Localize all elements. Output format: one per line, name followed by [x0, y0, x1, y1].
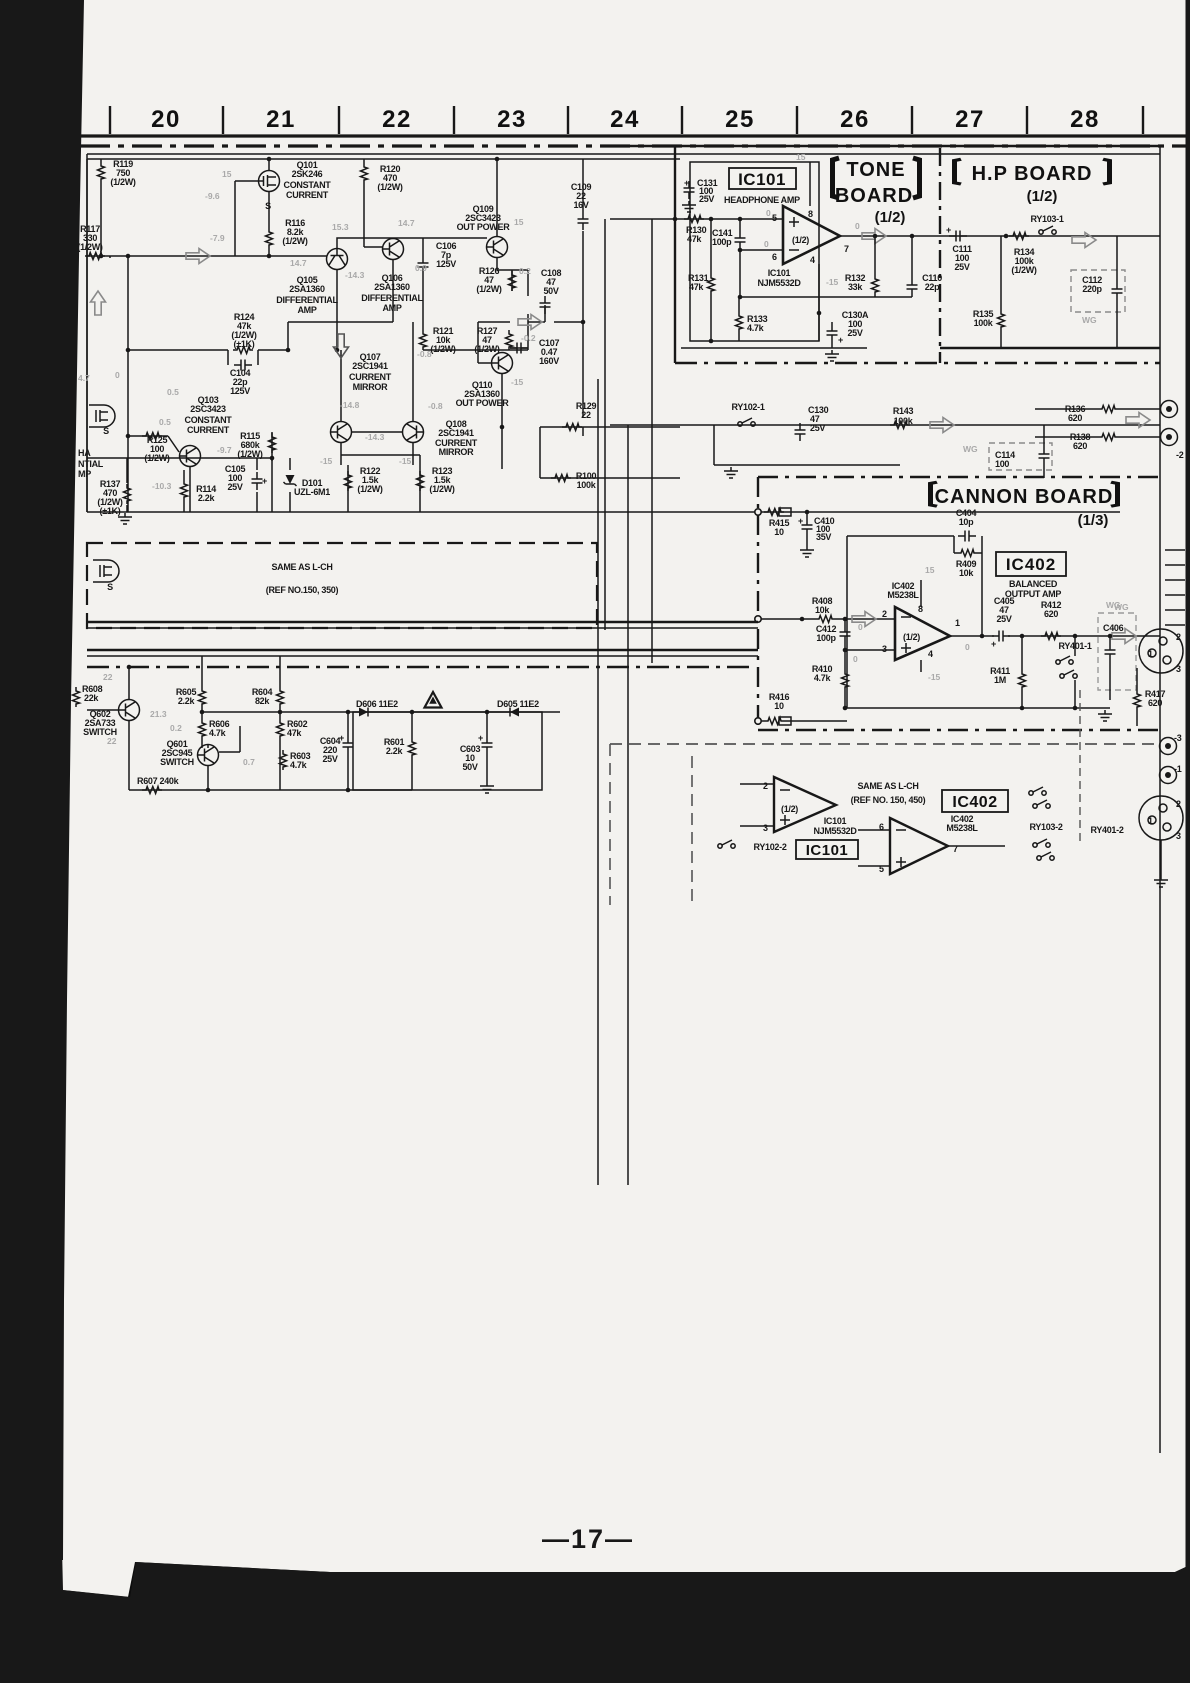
svg-text:28: 28 — [1070, 106, 1100, 133]
svg-text:+: + — [838, 335, 843, 345]
capacitor C114 dashed box WG — [989, 443, 1052, 470]
inner feedback box — [847, 536, 1110, 708]
svg-text:23: 23 — [497, 106, 527, 133]
svg-text:14.7: 14.7 — [290, 258, 307, 268]
right edge tick ladder — [1165, 550, 1185, 625]
svg-text:HEADPHONE AMP: HEADPHONE AMP — [724, 195, 800, 205]
wire r136 row — [1035, 408, 1160, 410]
input FET D-shape 2 — [93, 560, 119, 582]
svg-text:0: 0 — [764, 239, 769, 249]
scan black bottom band — [0, 1545, 1190, 1683]
junction dots q600 — [127, 665, 490, 793]
svg-text:-0.8: -0.8 — [428, 401, 443, 411]
svg-text:21: 21 — [266, 106, 296, 133]
wire Q106 base — [364, 246, 383, 248]
svg-text:R137470(1/2W)(±1K): R137470(1/2W)(±1K) — [97, 479, 123, 516]
wire C410 — [806, 512, 808, 546]
svg-text:4: 4 — [928, 649, 933, 659]
wire inverting input — [740, 219, 912, 297]
wire R417 — [1136, 668, 1138, 726]
ruler tick 24|25 — [681, 106, 683, 134]
svg-text:WG: WG — [963, 444, 978, 454]
resistor R412 — [1041, 633, 1061, 640]
svg-text:RY103-2: RY103-2 — [1029, 822, 1062, 832]
wire output y236 — [840, 235, 1160, 237]
wire C114 — [1043, 425, 1045, 478]
svg-text:0.7: 0.7 — [243, 757, 255, 767]
wire C406 — [1109, 636, 1111, 700]
ground amp bottom — [118, 513, 132, 524]
capacitor C104 — [234, 360, 252, 371]
diode D605 — [510, 708, 519, 717]
svg-text:+: + — [684, 178, 689, 188]
phono jack out2 — [1161, 429, 1178, 446]
svg-text:C141100p: C141100p — [712, 228, 733, 247]
svg-text:-9.7: -9.7 — [217, 445, 232, 455]
wire R129 R100 rails — [540, 322, 680, 478]
bus line 3 — [87, 649, 758, 651]
ruler tick 26|27 — [911, 106, 913, 134]
resistor R604 — [277, 687, 284, 707]
svg-text:R4104.7k: R4104.7k — [812, 664, 833, 683]
resistor R124 — [233, 347, 253, 354]
svg-text:(1/2): (1/2) — [903, 632, 920, 642]
transistor Q110 — [492, 353, 513, 374]
capacitor C131 — [684, 181, 695, 199]
phono jack mid1 — [1160, 738, 1177, 755]
XLR connector CN402 — [1139, 796, 1183, 840]
svg-text:3: 3 — [1176, 664, 1181, 674]
svg-text:3: 3 — [1176, 831, 1181, 841]
H.P BOARD header left bracket — [955, 159, 962, 184]
svg-text:IC402: IC402 — [1006, 555, 1056, 574]
svg-text:S: S — [103, 426, 109, 436]
svg-text:(1/2): (1/2) — [781, 804, 798, 814]
svg-text:S: S — [107, 582, 113, 592]
wire R408 input — [758, 618, 895, 620]
svg-text:22: 22 — [103, 672, 113, 682]
transistor Q105 — [327, 249, 348, 270]
tone board left vertical — [674, 146, 676, 363]
svg-text:IC101: IC101 — [738, 170, 786, 189]
bus dash-dot line — [87, 666, 752, 668]
H.P BOARD header right bracket — [1103, 159, 1110, 184]
capacitor C412 — [840, 625, 851, 643]
switch RY401-2 a — [1033, 839, 1050, 847]
resistor R410 — [842, 670, 849, 690]
IC101 label box — [729, 168, 796, 189]
svg-text:C412100p: C412100p — [816, 624, 837, 643]
resistor R120 — [361, 163, 368, 183]
svg-text:8: 8 — [808, 209, 813, 219]
wire opamp1b inputs — [740, 784, 774, 826]
svg-text:1: 1 — [1148, 649, 1153, 659]
resistor R606 — [199, 719, 206, 739]
ruler dash-dot line — [80, 144, 1190, 147]
signal arrow relay row — [930, 418, 954, 433]
svg-text:-0.8: -0.8 — [365, 0, 380, 2]
resistor R603 — [280, 750, 287, 770]
svg-text:15: 15 — [222, 169, 232, 179]
capacitor C404 — [958, 531, 976, 542]
switch RY103-1 — [1039, 226, 1056, 234]
phono jack mid2 — [1160, 767, 1177, 784]
resistor R132 — [872, 275, 879, 295]
svg-text:H.P BOARD: H.P BOARD — [972, 163, 1093, 185]
op-amp IC402b — [890, 818, 948, 874]
ground C603 — [480, 782, 494, 793]
ground C410 — [800, 546, 814, 557]
svg-text:3: 3 — [763, 823, 768, 833]
svg-text:RY401-2: RY401-2 — [1090, 825, 1123, 835]
tone/hp divider dash-dot — [939, 148, 941, 363]
svg-text:7: 7 — [844, 244, 849, 254]
wire pin8 up — [920, 580, 922, 607]
svg-text:15: 15 — [925, 565, 935, 575]
wire C604 — [347, 712, 349, 790]
capacitor C106 — [418, 256, 429, 274]
frame top right solid — [605, 145, 1160, 147]
wire R122 R123 — [348, 465, 420, 512]
TONE BOARD header left bracket — [833, 158, 840, 198]
capacitor C107 — [510, 343, 528, 354]
signal arrow HP — [1072, 233, 1096, 248]
wire R411 — [1021, 636, 1023, 708]
svg-text:R607 240k: R607 240k — [137, 776, 180, 786]
capacitor C105 — [252, 472, 263, 490]
resistor R416 — [764, 718, 784, 725]
wire Q101 chain — [268, 192, 270, 256]
svg-text:-15: -15 — [399, 456, 412, 466]
wire R604 — [279, 656, 281, 712]
transistor Q101 — [259, 171, 280, 192]
phono jack out1 — [1161, 401, 1178, 418]
svg-text:R100100k: R100100k — [576, 471, 597, 490]
switch RY401-1 b — [1060, 670, 1077, 678]
op-amp U-IC101 — [783, 206, 840, 264]
wire top rail stubs — [101, 159, 583, 256]
svg-text:15.3: 15.3 — [332, 222, 349, 232]
wire C105 D101 — [257, 432, 290, 512]
resistor R415 — [764, 509, 784, 516]
feed verticals bundle — [598, 219, 652, 1185]
resistor R411 — [1019, 670, 1026, 690]
svg-text:-0.2: -0.2 — [521, 333, 536, 343]
transistor Q108 mirror — [403, 422, 424, 443]
resistor R601 — [409, 738, 416, 758]
svg-text:25: 25 — [725, 106, 755, 133]
wire y350 R124 net — [128, 350, 288, 365]
dashed box same-as-l-ch — [87, 543, 597, 628]
svg-text:0.2: 0.2 — [170, 723, 182, 733]
signal arrow mid — [518, 315, 542, 330]
svg-text:-14.3: -14.3 — [345, 270, 365, 280]
svg-text:R135100k: R135100k — [973, 309, 994, 328]
svg-text:0.5: 0.5 — [159, 417, 171, 427]
resistor R130 — [684, 216, 704, 223]
junction dots cannon — [800, 510, 1113, 711]
svg-text:-15: -15 — [826, 277, 839, 287]
bus line 4 — [87, 655, 758, 657]
svg-text:NTIAL: NTIAL — [78, 459, 104, 469]
capacitor C141 — [735, 231, 746, 249]
wire op-amp pin8 up — [809, 162, 811, 206]
svg-text:R115680k(1/2W): R115680k(1/2W) — [237, 431, 263, 459]
svg-text:5: 5 — [772, 213, 777, 223]
IC101 label box row2 — [796, 840, 858, 859]
wire opamp2b — [858, 830, 1005, 866]
capacitor C603 — [482, 736, 493, 754]
svg-text:R6012.2k: R6012.2k — [384, 737, 405, 756]
IC101 circuit box — [690, 162, 819, 341]
svg-text:C112220p: C112220p — [1082, 275, 1102, 294]
IC402 label box row2 — [942, 790, 1008, 812]
ground C131 — [682, 201, 696, 212]
wire R606 — [201, 712, 203, 748]
signal arrow input — [186, 249, 210, 264]
svg-text:WG: WG — [1082, 315, 1097, 325]
wire Q601 — [208, 726, 240, 790]
scan black left bar — [0, 0, 84, 1560]
capacitor C111 — [949, 231, 967, 242]
capacitor C109 — [578, 212, 589, 230]
capacitor C405 — [992, 631, 1010, 642]
svg-text:BOARD: BOARD — [835, 185, 913, 207]
warning triangle q600 — [425, 692, 442, 708]
svg-text:RY102-2: RY102-2 — [753, 842, 786, 852]
ruler tick 27|28 — [1026, 106, 1028, 134]
svg-text:R6052.2k: R6052.2k — [176, 687, 197, 706]
diode D606 — [359, 708, 368, 717]
svg-text:+: + — [991, 639, 996, 649]
wire Q105/Q106 tops — [337, 238, 487, 330]
svg-text:RY103-1: RY103-1 — [1030, 214, 1063, 224]
signal arrow r136 — [1126, 413, 1150, 428]
resistor R129 — [562, 424, 582, 431]
svg-text:0: 0 — [858, 622, 863, 632]
capacitor C114 — [1039, 447, 1050, 465]
main frame left vertical — [86, 154, 88, 512]
resistor R115 — [269, 433, 276, 453]
svg-text:R134100k(1/2W): R134100k(1/2W) — [1011, 247, 1037, 275]
svg-text:-15: -15 — [511, 377, 524, 387]
ruler tick 25|26 — [796, 106, 798, 134]
ruler tick 20|21 — [222, 106, 224, 134]
junction dots IC101 — [673, 217, 1009, 344]
switch RY401-1 a — [1056, 656, 1073, 664]
wire Q103 base — [128, 436, 272, 512]
svg-text:SAME AS L-CH: SAME AS L-CH — [271, 562, 332, 572]
svg-text:SAME AS L-CH: SAME AS L-CH — [857, 781, 918, 791]
svg-text:0: 0 — [855, 221, 860, 231]
wire r138 row — [1035, 436, 1160, 438]
svg-text:-2: -2 — [1176, 450, 1184, 460]
open node circles cannon border — [755, 509, 761, 515]
wire y712 diode row — [202, 711, 560, 713]
svg-text:C1070.47160V: C1070.47160V — [539, 338, 560, 366]
svg-text:+: + — [798, 516, 803, 526]
transistor Q601 — [198, 745, 219, 766]
resistor R605 — [199, 687, 206, 707]
transistor Q109 — [487, 237, 508, 258]
svg-text:MP: MP — [78, 469, 91, 479]
wire R132 — [874, 236, 876, 297]
signal arrow R408 — [852, 612, 876, 627]
svg-text:CANNON BOARD: CANNON BOARD — [935, 486, 1114, 508]
svg-text:1: 1 — [955, 618, 960, 628]
wire R602 — [279, 712, 281, 790]
svg-text:—17—: —17— — [542, 1524, 634, 1554]
svg-text:HA: HA — [78, 448, 91, 458]
signal arrow C406 — [1112, 629, 1136, 644]
op-amp U-IC402 — [895, 607, 950, 660]
svg-text:2: 2 — [763, 781, 768, 791]
svg-text:(REF NO. 150, 450): (REF NO. 150, 450) — [851, 795, 926, 805]
svg-text:14.7: 14.7 — [398, 218, 415, 228]
resistor R608 — [73, 687, 80, 707]
svg-text:-14.8: -14.8 — [340, 400, 360, 410]
resistor R114 — [181, 480, 188, 500]
capacitor C130A — [827, 324, 838, 342]
wire C112 — [1116, 236, 1118, 348]
resistor R602 — [277, 719, 284, 739]
svg-text:0.2: 0.2 — [519, 266, 531, 276]
ruler tick 23|24 — [567, 106, 569, 134]
signal arrow down dark — [334, 334, 349, 358]
ruler tick 19|20 — [109, 106, 111, 134]
scan black right edge line — [1186, 0, 1190, 1570]
svg-text:TONE: TONE — [846, 159, 905, 181]
vertical RY401 link dashed — [1079, 690, 1081, 845]
svg-text:26: 26 — [840, 106, 870, 133]
svg-text:6: 6 — [772, 252, 777, 262]
TONE BOARD header right bracket — [913, 158, 920, 198]
svg-text:+: + — [478, 733, 483, 743]
wire xlr2 ground — [1160, 840, 1162, 876]
wire R137 — [87, 256, 201, 512]
resistor R607 — [142, 787, 162, 794]
resistor R133 — [736, 312, 743, 332]
svg-text:2: 2 — [1176, 632, 1181, 642]
op-amp IC101b — [774, 777, 836, 832]
signal arrow output — [862, 229, 886, 244]
capacitor C108 — [540, 296, 551, 314]
resistor R409 — [957, 550, 977, 557]
CANNON header right bracket — [1111, 482, 1118, 506]
ruler tick 21|22 — [338, 106, 340, 134]
wire relay row — [610, 424, 1160, 426]
svg-text:R143100k: R143100k — [893, 406, 914, 426]
wire hp ground rail — [940, 347, 1160, 349]
svg-text:C406: C406 — [1103, 623, 1124, 633]
wire output y636 — [950, 635, 1160, 637]
switch RY102-2 — [718, 840, 735, 848]
capacitor C130 — [795, 423, 806, 441]
wire RY401 stub — [1074, 636, 1076, 708]
svg-text:S: S — [265, 201, 271, 211]
frame right vertical long — [1159, 146, 1161, 1453]
svg-text:R1142.2k: R1142.2k — [196, 484, 216, 503]
bus line 2 — [87, 627, 758, 629]
svg-text:0.9: 0.9 — [415, 263, 427, 273]
svg-text:C11022p: C11022p — [922, 273, 942, 292]
svg-text:4: 4 — [810, 255, 815, 265]
svg-text:2: 2 — [1176, 799, 1181, 809]
svg-text:0: 0 — [766, 208, 771, 218]
wire current mirror — [341, 322, 420, 465]
svg-text:3: 3 — [882, 644, 887, 654]
svg-text:-15: -15 — [928, 672, 941, 682]
transistor Q103 — [180, 446, 201, 467]
wire bottom rail — [87, 159, 1120, 512]
wire op-amp pin4 down — [818, 264, 820, 341]
CANNON header left bracket — [931, 482, 938, 506]
resistor R100 — [551, 475, 571, 482]
wire pin3 — [845, 619, 895, 708]
wire R131 — [710, 219, 712, 341]
wire R601 — [411, 712, 413, 790]
svg-text:1: 1 — [1148, 816, 1153, 826]
switch RY401-2 b — [1037, 852, 1054, 860]
resistor R117 — [85, 253, 105, 260]
svg-text:-3: -3 — [1174, 733, 1182, 743]
wire R133 — [738, 297, 740, 341]
svg-text:D606 11E2: D606 11E2 — [356, 699, 398, 709]
transistor Q106 — [383, 239, 404, 260]
resistor R138 — [1098, 434, 1118, 441]
svg-text:0: 0 — [965, 642, 970, 652]
component box q600 — [353, 712, 542, 790]
svg-text:22: 22 — [107, 736, 117, 746]
svg-text:2: 2 — [882, 609, 887, 619]
svg-text:15: 15 — [514, 217, 524, 227]
resistor R127 — [506, 330, 513, 350]
zener D101 — [284, 475, 297, 486]
resistor R126 — [509, 271, 516, 291]
wire main input net y256 — [87, 181, 327, 512]
wire top entry — [714, 425, 900, 465]
svg-text:-7.9: -7.9 — [210, 233, 225, 243]
svg-text:+: + — [262, 476, 267, 486]
svg-text:(1/3): (1/3) — [1078, 512, 1109, 529]
wire q600 bottom rail — [129, 789, 412, 791]
wire R135 — [1000, 236, 1002, 348]
resistor R116 — [266, 228, 273, 248]
signal arrow up-left — [91, 291, 106, 315]
svg-text:15: 15 — [796, 152, 806, 162]
resistor R143 — [890, 422, 910, 429]
svg-text:24: 24 — [610, 106, 640, 133]
svg-text:-15: -15 — [320, 456, 333, 466]
ruler tick 22|23 — [453, 106, 455, 134]
resistor R135 — [998, 310, 1005, 330]
svg-text:-0.8: -0.8 — [417, 349, 432, 359]
resistor R136 — [1098, 406, 1118, 413]
capacitor C406 dashed WG box — [1098, 613, 1136, 690]
capacitor C406 — [1105, 643, 1116, 661]
bus line 1 — [87, 621, 758, 623]
resistor R122 — [345, 471, 352, 491]
wire pin4 stub — [920, 660, 922, 672]
wire input y219 — [610, 219, 783, 222]
main frame top double line — [87, 154, 1160, 159]
cannon board dash-dot border — [758, 477, 1164, 730]
IC402 label box — [996, 552, 1066, 576]
tone board bottom dash-dot — [675, 362, 1160, 364]
wire R605 — [201, 656, 203, 712]
svg-text:0: 0 — [853, 654, 858, 664]
transistor Q602 — [119, 700, 140, 721]
